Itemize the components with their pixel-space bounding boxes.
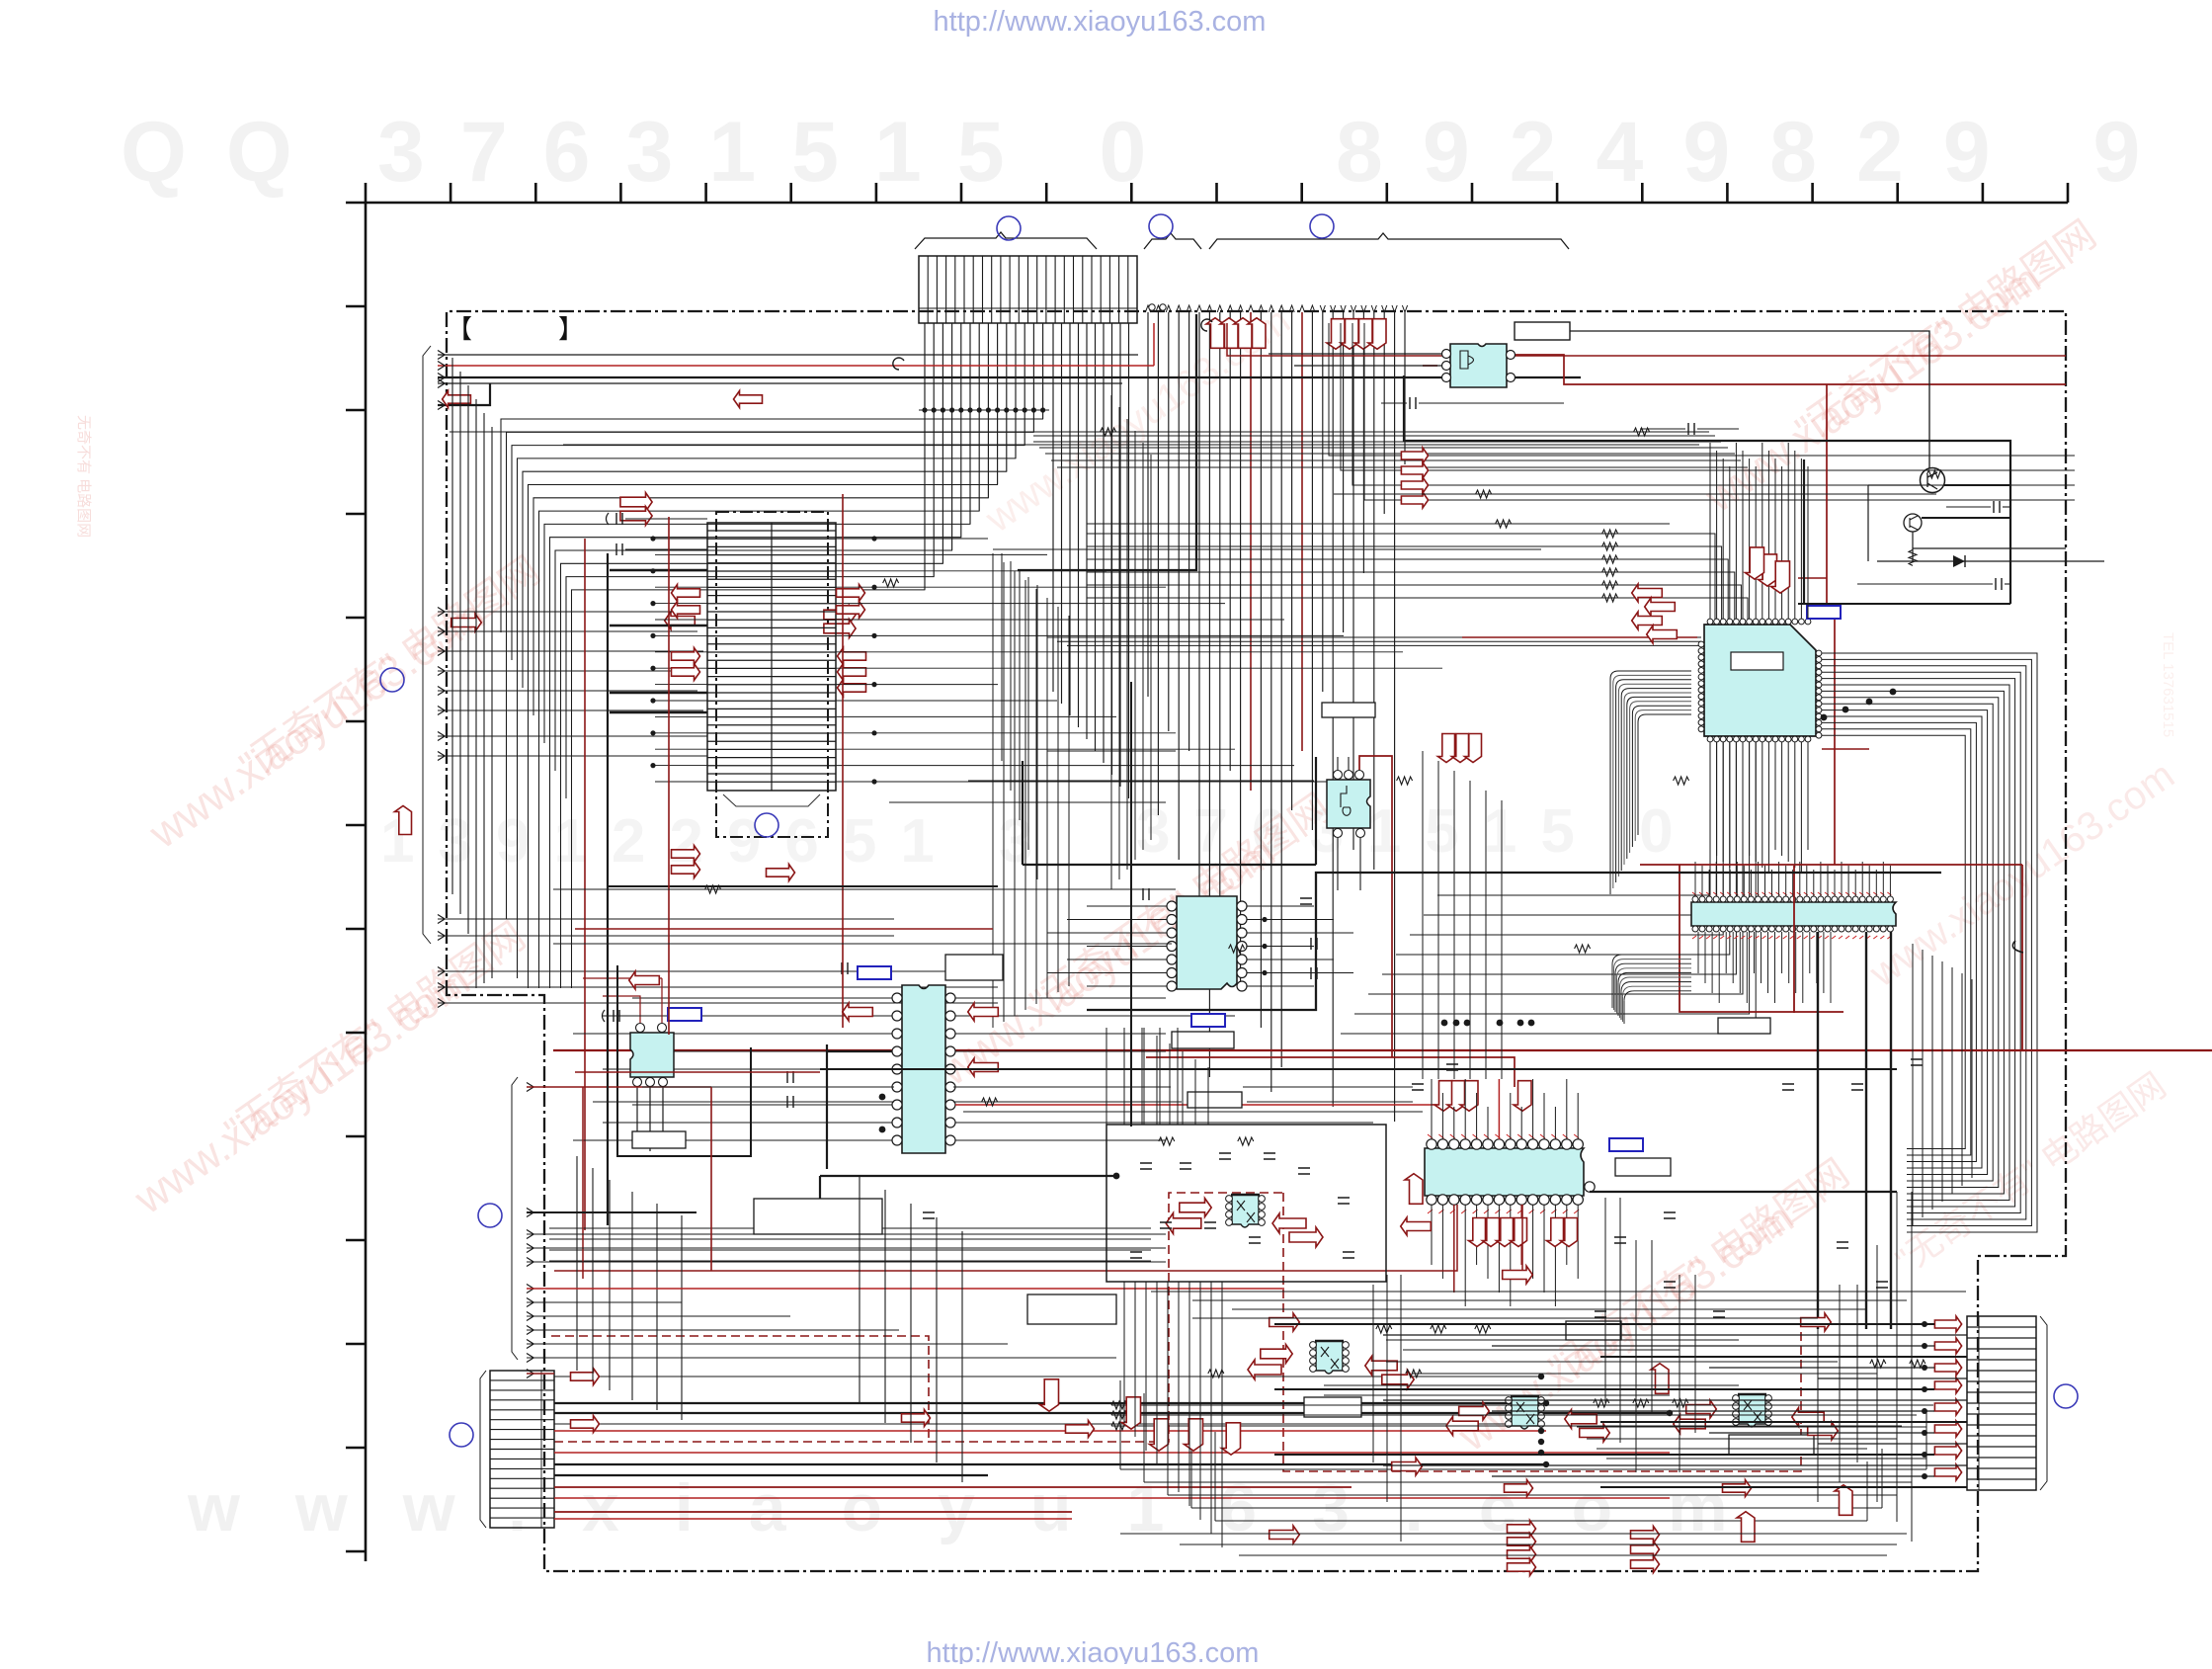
IC501 label box [1718,1018,1770,1034]
IC203 left wires [573,998,892,1140]
bottom mid mesh verticals [1373,1192,1912,1542]
svg-text:1391229651 3: 1391229651 3 [380,807,1057,876]
Q network [1868,485,2066,561]
capacitor cluster bottom [1130,1064,1888,1317]
wire step [438,383,490,405]
arrow left group IC301 [1632,584,1663,602]
upper mid crossing rails [450,432,1936,1112]
IC401 label box [1515,322,1570,340]
label box under IC605 [1729,1435,1814,1455]
svg-text:无奇不有 电路图网: 无奇不有 电路图网 [75,415,92,538]
arrow group up x4 [1206,318,1266,349]
IC205 wires [1338,757,1349,770]
IC301 bottom wrap left [1341,742,1756,1034]
arrows near IC605 [1686,1400,1717,1418]
input bracket left top [423,346,431,944]
junction dots IC601 top [1441,1020,1448,1027]
IC401 logic gate [1450,344,1507,387]
arrows near IC602 [1180,1199,1211,1217]
arrow R mid top [620,493,652,512]
wire right risers [1913,944,1972,1225]
label box under IC603 [1304,1397,1361,1417]
IC501 pin ticks red [1692,892,1891,939]
IC301 right bus wrap [1822,653,2037,1232]
arrow L pair top [443,391,471,408]
IC202 ref label blue [668,1008,701,1021]
ground hook [2012,941,2023,953]
heavy center drop [607,553,609,1225]
IC203 DIP20 [902,985,945,1153]
red dashed service loop [554,1193,1283,1442]
gate to Q1 wire [1570,331,1929,468]
wire SDA left [438,354,1138,356]
ruler left scale [346,203,366,1561]
bottom mid mesh horizontals [1151,1292,1966,1459]
svg-text:QQ: QQ [121,105,332,200]
IC203 support caps [787,1071,793,1083]
IC601 bottom drops [1432,1205,1578,1306]
IC204 wires left [1047,906,1167,986]
arrow cluster above IC601 [1434,1081,1452,1112]
circle ref A [997,216,1021,240]
IC202 frame [617,965,751,1156]
IC204 DIP14 [1177,896,1237,989]
IC501 left fan [1612,955,1691,1024]
brace group C [1209,233,1569,249]
midfield texture verticals [1106,751,1502,1125]
bottom long rails 2 [1120,1534,1907,1555]
wire SCL red [438,365,1154,367]
IC301 bottom pin bus [1710,742,1808,874]
transistor Q402 [1904,514,1922,532]
IC501 bottom drops [1698,932,1831,1003]
arrow R mid4 [451,614,482,631]
arrow trio down IC205 [1438,734,1455,763]
arrows IC203 [843,1003,873,1021]
arrow row IC601 down [1469,1218,1486,1247]
CN601 risers [577,1087,682,1420]
IC602 photocoupler [1232,1195,1259,1227]
arrows CN201 right [837,585,865,602]
IC202 wires [583,978,662,1023]
wire red top run [1423,365,1437,367]
board outline MAIN BOARD dash-dot border [447,311,2066,1571]
right bus caps [1782,1084,1794,1090]
bottom arrows scatter [1270,1313,1300,1331]
wire red center drop [842,494,844,1028]
arrow R mid top2 [824,606,856,625]
wire XRST bold [438,376,1581,378]
wire bus CN101 deep drops [1053,323,1129,798]
IC603 photocoupler [1316,1341,1343,1374]
IC301 microcontroller QFP [1704,625,1816,736]
CN201 right wires [836,536,1442,784]
heavy stub [1803,459,1805,603]
IC204 wires right [1247,906,1353,986]
wire bus band2 with arrows [1329,323,2075,508]
connector CN601 [490,1371,554,1528]
CN602 wires [1274,1321,1967,1487]
circle ref E [380,668,404,692]
IC501 top bus [1695,862,1890,896]
circle ref G [478,1204,502,1227]
wire bus CN101 pin drops [919,323,1049,590]
heavy drop rail [1018,314,1196,570]
wire bus center to IC301 [1002,553,1701,894]
svg-text:http://www.xiaoyu163.com: http://www.xiaoyu163.com [927,1637,1260,1664]
capacitor C402 [1994,501,2000,513]
IC401 wires [1269,353,1441,355]
IC301 top pin bus [1710,443,1808,619]
transistor Q401 [1921,468,1945,493]
arrow R mid3 [665,612,696,629]
CN601 wires [554,1374,1673,1519]
wire bus left verticals [452,358,492,988]
red run IC601 [554,1205,1457,1271]
circle ref C [1310,214,1334,238]
IC601 audio driver [1425,1148,1584,1196]
arrows near IC604 [1459,1402,1490,1420]
arrows CN201 left [672,585,700,602]
wire bus top band [1033,436,1748,467]
circle ref F [450,1423,473,1447]
IC203 label box [945,955,1003,980]
red mid runs [575,929,993,1072]
circle ref H [2054,1384,2078,1408]
capacitor C203 [603,1010,606,1022]
bottom left long rails [549,1227,1151,1229]
svg-text:】: 】 [558,314,584,344]
input bracket left low [512,1077,518,1360]
squiggle marks scatter [705,428,1689,1106]
svg-text:TEL 137631515: TEL 137631515 [2160,632,2176,737]
CN201 left stubs [650,536,707,782]
capacitor bank IC204 [1143,888,1149,900]
IC203 ref label blue [858,966,891,979]
IC501 driver SOP30 [1691,902,1896,926]
pin header row P1 [1145,304,1407,1122]
svg-text:【: 【 [447,314,472,344]
IC601 top bus [1432,1079,1578,1139]
resistor cluster bottom [1159,1137,1925,1407]
Q401 collector rail [1944,484,2010,486]
label box IC204 second [1188,1092,1242,1108]
IC205 label box [1322,703,1375,717]
IC601 ref label blue [1609,1138,1643,1151]
connector CN101 [919,256,1137,323]
input chevrons mid-left [438,608,998,1008]
svg-text:http://www.xiaoyu163.com: http://www.xiaoyu163.com [934,6,1267,38]
arrow down pair IC301 [1759,554,1777,586]
diode D401 [1877,560,2104,562]
wire red feeder CN201 [668,517,670,723]
wire bus nested fan corners [501,419,1043,988]
arrows CN601 [571,1369,600,1385]
red feeder IC601 [1146,873,1515,1087]
label box mid bottom [1566,1321,1621,1340]
sub-block dash-dot border around CN201 [716,512,828,837]
IC202 regulator [630,1033,674,1077]
center-bottom riser bundle [860,1028,1222,1547]
label box 2 [754,1199,882,1234]
ruler top scale [366,183,2068,203]
CN201 bold rails [610,569,707,571]
IC605 photocoupler [1739,1394,1765,1427]
capacitor C202 [616,543,622,555]
capacitor C401 [1410,397,1416,409]
label box 3 [1027,1294,1116,1324]
IC601 pin ticks red [1428,1134,1579,1213]
arrows near IC603 [1261,1345,1292,1364]
IC204 ref label blue [1191,1014,1225,1027]
circle ref B [1149,214,1173,238]
arrow IC601 up left [1405,1174,1423,1205]
IC205 reset 8pin [1327,780,1370,828]
heavy rail center [1087,873,1941,1010]
capacitor C201 [607,513,610,525]
brace group B [1144,233,1201,249]
top right caps [1688,423,1694,435]
wire bus center risers [993,395,1151,1028]
circle ref D [755,813,778,837]
mid band rails [820,1068,1897,1070]
CN602 arrows [1934,1316,1961,1480]
bottom rails [1111,1380,1933,1521]
IC601 label box [1615,1158,1671,1176]
shield box bottom left [1106,1125,1386,1282]
svg-text:37631515 0: 37631515 0 [377,105,1182,200]
connector CN201 pin table [707,523,836,791]
svg-text:89249829 9: 89249829 9 [1336,105,2179,200]
IC501 red frame [1640,865,2022,1050]
junction dots right IC301 [1890,689,1897,696]
wire bus QFP feed [1087,530,1748,622]
IC203 right wires [955,998,1373,1140]
power rail red bottom [553,1049,2212,1051]
connector CN602 [1967,1316,2036,1490]
IC204 label box [1172,1032,1234,1048]
IC203 red out [955,1104,1442,1106]
arrow group down x4 [1327,319,1386,350]
IC501 heavy rails [1817,932,1819,1329]
IC203 heavy rail [826,1044,828,1169]
IC604 photocoupler [1512,1396,1538,1429]
arrows CN201 bottom [672,846,700,863]
IC301 ref label blue [1807,606,1841,619]
wire red QFP feeds [1827,384,1835,865]
